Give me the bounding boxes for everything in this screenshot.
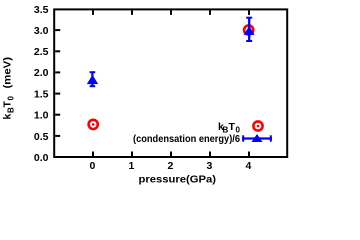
x tick bottom 0 bbox=[92, 152, 94, 157]
svg-text:0: 0 bbox=[7, 96, 16, 101]
svg-text:4: 4 bbox=[245, 160, 251, 172]
svg-text:pressure(GPa): pressure(GPa) bbox=[139, 174, 217, 186]
svg-text:3.5: 3.5 bbox=[34, 4, 49, 16]
svg-text:1.5: 1.5 bbox=[34, 88, 49, 100]
plot border box bbox=[54, 9, 287, 157]
svg-text:T: T bbox=[229, 121, 236, 133]
y tick 0.5 bbox=[55, 135, 60, 137]
x tick top 1 bbox=[131, 10, 133, 15]
legend sample: blue errorbar line with triangle bbox=[242, 134, 272, 142]
x tick bottom 1 bbox=[131, 152, 133, 157]
legend sample: red open circle bbox=[253, 121, 262, 130]
svg-text:3: 3 bbox=[206, 160, 212, 172]
y tick 2.5 bbox=[55, 50, 60, 52]
y axis label kB T0 (meV), rotated bbox=[2, 57, 16, 120]
svg-text:2.0: 2.0 bbox=[34, 67, 49, 79]
data: blue yerrorbar + triangle at (4, 3.0) bbox=[244, 18, 255, 42]
svg-text:1.0: 1.0 bbox=[34, 110, 49, 122]
x tick bottom 2 bbox=[170, 152, 172, 157]
svg-text:0.5: 0.5 bbox=[34, 131, 49, 143]
data: blue yerrorbar + triangle at (0, 1.85) bbox=[87, 72, 98, 86]
y tick 1.0 bbox=[55, 114, 60, 116]
svg-text:0.0: 0.0 bbox=[34, 152, 49, 164]
svg-text:k: k bbox=[2, 114, 14, 120]
y tick 3.0 bbox=[55, 29, 60, 31]
data: red open circle kB T0 at (4, 3.0) bbox=[244, 25, 253, 34]
svg-text:(condensation energy)/6: (condensation energy)/6 bbox=[133, 133, 240, 145]
svg-text:2: 2 bbox=[167, 160, 173, 172]
svg-text:2.5: 2.5 bbox=[34, 46, 49, 58]
svg-text:T: T bbox=[2, 101, 14, 108]
svg-text:3.0: 3.0 bbox=[34, 25, 49, 37]
x tick top 4 bbox=[248, 10, 250, 15]
svg-text:1: 1 bbox=[128, 160, 134, 172]
y tick 2.0 bbox=[55, 71, 60, 73]
x tick bottom 4 bbox=[248, 152, 250, 157]
y tick 1.5 bbox=[55, 93, 60, 95]
x tick top 0 bbox=[92, 10, 94, 15]
x tick bottom 3 bbox=[209, 152, 211, 157]
x tick top 3 bbox=[209, 10, 211, 15]
svg-text:0: 0 bbox=[89, 160, 95, 172]
x tick top 2 bbox=[170, 10, 172, 15]
svg-text:(meV): (meV) bbox=[2, 57, 14, 89]
legend text kB T0 bbox=[218, 121, 241, 135]
data: red open circle kB T0 at (0, 0.8) bbox=[89, 120, 98, 129]
